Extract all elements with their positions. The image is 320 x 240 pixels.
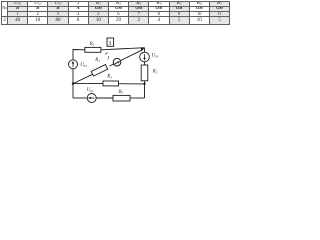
wire top right of R1 [101,48,145,50]
resistor R5 [113,95,130,101]
resistor R2 [141,65,148,81]
node A junction dot [72,82,74,84]
resistor R3 [103,81,119,86]
svg-text:R2: R2 [152,70,158,75]
variant number box 3 [107,38,114,46]
wire diagonal [73,73,95,83]
current source J [113,58,121,66]
source US3 [140,52,150,62]
svg-text:R5: R5 [118,90,124,95]
wire top left vertical [73,50,85,60]
svg-text:US3: US3 [152,54,159,59]
svg-text:US1: US1 [80,63,87,68]
arrowhead at top right node [140,47,145,52]
data table [1,1,230,25]
wire bottom mid [96,97,113,99]
resistor R1 [85,47,101,52]
svg-text:R4: R4 [94,58,100,63]
svg-text:R3: R3 [106,75,112,80]
svg-text:US2: US2 [87,88,94,93]
resistor R4 (diagonal) [91,65,107,77]
wire middle left [73,83,103,85]
wire left rail below US1 [72,69,74,98]
wire middle right [119,83,145,85]
source US1 [69,60,78,69]
wire right rail [144,48,146,53]
wire bottom right [130,97,145,99]
svg-text:R1: R1 [89,42,95,47]
node B junction dot [143,83,145,85]
source US2 [87,94,96,103]
svg-text:3: 3 [108,40,111,47]
wire bottom left [73,97,87,99]
svg-text:J: J [107,56,110,61]
label J arrow tick [105,52,107,54]
